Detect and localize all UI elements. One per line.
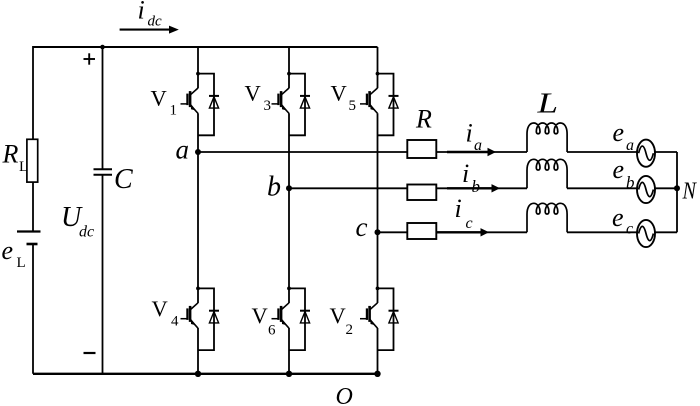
wire leg 2 lower — [288, 328, 290, 374]
diode of V6 — [300, 310, 310, 312]
resistor R phase b — [407, 185, 436, 201]
source ec — [637, 220, 655, 247]
IGBT V3 emitter lead with arrow — [281, 105, 289, 114]
inductor L phase c — [527, 203, 567, 232]
wire inductor to source phase c — [567, 231, 677, 233]
svg-text:V: V — [252, 303, 268, 328]
svg-text:e: e — [2, 236, 14, 265]
node N dot — [674, 185, 680, 191]
wire node b to resistor — [289, 187, 407, 189]
arrow ia — [447, 151, 489, 153]
svg-text:2: 2 — [346, 322, 354, 338]
source ea — [637, 140, 655, 167]
transistor V2 diode branch wire — [378, 288, 394, 350]
transistor V2 top junction — [376, 287, 380, 291]
junction dot top rail / capacitor branch — [100, 45, 105, 50]
svg-text:e: e — [613, 155, 625, 184]
IGBT V5 emitter lead with arrow — [370, 105, 378, 114]
svg-text:dc: dc — [148, 14, 163, 30]
svg-text:O: O — [336, 384, 353, 406]
svg-text:b: b — [267, 172, 281, 203]
svg-text:5: 5 — [349, 98, 357, 114]
IGBT V6 collector lead — [281, 303, 289, 310]
svg-text:e: e — [612, 203, 624, 232]
IGBT V1 gate lead — [181, 103, 188, 105]
capacitor C plates — [94, 168, 113, 170]
IGBT V3 collector lead — [281, 88, 289, 95]
transistor V6 diode branch wire — [289, 288, 305, 350]
svg-text:e: e — [613, 118, 625, 147]
svg-text:a: a — [626, 137, 634, 154]
IGBT V1 collector lead — [190, 88, 198, 95]
junction dot leg 2 bottom rail — [286, 371, 292, 377]
IGBT V5 gate lead — [360, 103, 367, 105]
svg-text:V: V — [151, 86, 167, 111]
IGBT V1 body bar — [189, 91, 192, 107]
svg-text:c: c — [466, 215, 473, 232]
svg-text:C: C — [114, 164, 133, 195]
transistor V5 diode branch wire — [378, 74, 394, 136]
wire leg 2 upper — [288, 47, 290, 88]
IGBT V4 gate bar — [186, 308, 188, 320]
arrow ic — [437, 231, 482, 233]
svg-text:L: L — [17, 255, 26, 271]
arrow ib — [447, 187, 493, 189]
IGBT V2 gate bar — [366, 308, 368, 320]
svg-text:V: V — [330, 303, 346, 328]
node a junction dot — [195, 149, 201, 155]
source eb — [637, 176, 655, 203]
diode of V1 — [209, 95, 219, 97]
svg-text:R: R — [2, 140, 19, 169]
IGBT V4 body bar — [189, 306, 192, 322]
junction dot leg 1 bottom rail — [195, 371, 201, 377]
junction dot leg 3 bottom rail — [374, 371, 380, 377]
diode of V4 — [209, 310, 219, 312]
IGBT V2 body bar — [368, 306, 371, 322]
svg-text:dc: dc — [79, 224, 94, 241]
transistor V4 top junction — [196, 287, 200, 291]
transistor V3 diode branch wire — [289, 74, 305, 136]
IGBT V4 collector lead — [190, 303, 198, 310]
IGBT V1 gate bar — [186, 94, 188, 106]
inductor L phase b — [527, 159, 567, 188]
IGBT V6 body bar — [280, 306, 283, 322]
inductor L phase a — [527, 123, 567, 152]
wire left branch upper — [32, 46, 34, 139]
svg-text:a: a — [474, 137, 482, 154]
transistor V6 top junction — [287, 287, 291, 291]
transistor V4 diode branch wire — [198, 288, 214, 350]
diode of V3 — [300, 95, 310, 97]
svg-text:V: V — [331, 81, 347, 106]
IGBT V1 emitter lead with arrow — [190, 105, 198, 114]
svg-text:c: c — [356, 212, 368, 242]
resistor R phase a — [407, 140, 436, 158]
svg-text:i: i — [466, 119, 473, 148]
resistor RL — [27, 139, 38, 182]
svg-text:L: L — [19, 159, 28, 175]
wire top DC rail — [33, 46, 378, 48]
IGBT V5 gate bar — [366, 94, 368, 106]
IGBT V2 emitter lead with arrow — [370, 319, 378, 328]
battery eL plate short — [27, 243, 38, 246]
wire leg 1 upper — [197, 47, 199, 88]
wire leg 3 upper — [377, 47, 379, 88]
wire leg 2 middle — [288, 113, 290, 303]
IGBT V5 body bar — [368, 91, 371, 107]
svg-text:b: b — [472, 177, 481, 196]
svg-text:6: 6 — [268, 323, 276, 339]
svg-text:1: 1 — [170, 103, 178, 119]
wire leg 3 middle — [377, 113, 379, 303]
IGBT V4 gate lead — [181, 318, 188, 320]
battery eL plate long — [17, 230, 41, 232]
node c junction dot — [375, 229, 381, 235]
transistor V3 top junction — [287, 72, 291, 76]
wire node a to resistor — [198, 151, 407, 153]
wire inductor to source phase b — [567, 187, 677, 189]
IGBT V5 collector lead — [370, 88, 378, 95]
svg-text:V: V — [152, 296, 168, 321]
IGBT V6 gate bar — [277, 308, 279, 320]
wire node c to resistor — [378, 231, 408, 233]
wire right bus — [676, 152, 678, 232]
IGBT V3 gate lead — [272, 103, 279, 105]
diode of V2 — [389, 310, 399, 312]
node b junction dot — [286, 185, 292, 191]
wire leg 1 lower — [197, 328, 199, 374]
IGBT V4 emitter lead with arrow — [190, 319, 198, 328]
svg-text:4: 4 — [171, 314, 179, 330]
wire resistor to inductor phase b — [436, 187, 527, 189]
svg-text:a: a — [176, 135, 190, 165]
label minus — [84, 352, 96, 354]
resistor R phase c — [407, 223, 436, 239]
svg-text:i: i — [462, 159, 469, 188]
IGBT V6 emitter lead with arrow — [281, 319, 289, 328]
svg-text:R: R — [415, 105, 432, 134]
wire battery to bottom rail — [32, 244, 34, 374]
label plus — [84, 58, 96, 60]
svg-text:b: b — [626, 173, 635, 192]
wire RL to battery — [32, 182, 34, 231]
svg-text:L: L — [536, 89, 558, 120]
wire leg 3 lower — [377, 328, 379, 374]
svg-text:3: 3 — [264, 98, 272, 114]
wire capacitor branch lower — [102, 175, 104, 374]
svg-text:i: i — [455, 194, 462, 223]
IGBT V2 collector lead — [370, 303, 378, 310]
IGBT V3 gate bar — [277, 94, 279, 106]
transistor V1 diode branch wire — [198, 74, 214, 136]
wire inductor to source phase a — [567, 151, 677, 153]
IGBT V3 body bar — [280, 91, 283, 107]
transistor V1 top junction — [196, 72, 200, 76]
wire capacitor branch upper — [102, 47, 104, 169]
svg-text:i: i — [138, 0, 145, 25]
transistor V5 top junction — [376, 72, 380, 76]
diode of V5 — [389, 95, 399, 97]
wire resistor to inductor phase c — [436, 231, 527, 233]
svg-text:V: V — [245, 81, 261, 106]
IGBT V2 gate lead — [360, 318, 367, 320]
wire bottom DC rail (node O) — [33, 373, 379, 375]
svg-text:c: c — [626, 221, 633, 238]
wire leg 1 middle — [197, 113, 199, 303]
svg-text:N: N — [682, 177, 697, 204]
arrow idc — [120, 29, 170, 31]
IGBT V6 gate lead — [272, 318, 279, 320]
wire resistor to inductor phase a — [436, 151, 527, 153]
